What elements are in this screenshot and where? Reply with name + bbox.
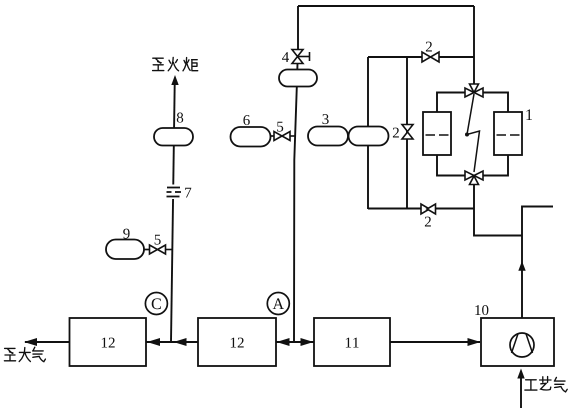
label 7 xyxy=(185,188,191,198)
arrow up on riser xyxy=(518,261,525,271)
wire A-line top xyxy=(297,6,299,50)
wire top header xyxy=(298,5,474,7)
wire drop x368 xyxy=(367,57,369,209)
adsorber tower right xyxy=(494,112,522,155)
process gas feed arrow xyxy=(520,379,522,408)
tower assembly 1 : top connector wires xyxy=(437,93,508,176)
compressor vanes xyxy=(512,334,533,353)
vessel 3 left capsule xyxy=(308,127,348,146)
wire right drop to valve V-top xyxy=(473,6,475,84)
instrument bubble A xyxy=(267,293,289,315)
valve 5 on C-line xyxy=(150,245,173,254)
vessel 8 xyxy=(154,128,193,146)
label 3 xyxy=(323,114,329,124)
wire bottom manifold xyxy=(25,341,480,343)
arrow to atmosphere xyxy=(24,338,37,346)
arrow into box11 xyxy=(301,338,314,346)
box 12 left xyxy=(70,318,147,366)
arrow into box12M xyxy=(277,338,290,346)
vessel 3 right capsule xyxy=(349,127,389,146)
linkage pivot dot xyxy=(465,133,469,137)
three-way valve bottom xyxy=(465,171,483,185)
valve 5 on A-line xyxy=(274,132,296,141)
label 2 middle xyxy=(393,128,399,138)
wire drop x407 xyxy=(406,57,408,209)
valve 4 xyxy=(292,50,310,64)
box 12 middle xyxy=(198,318,276,366)
text 至火炬 (to flare) xyxy=(153,57,198,70)
arrow into box12L xyxy=(147,338,160,346)
label 1 xyxy=(526,109,532,120)
box 10 compressor xyxy=(481,318,554,366)
label 2 top xyxy=(426,42,432,52)
wire bottom-valve discharge xyxy=(474,185,553,319)
text 至大气 (to atmosphere) xyxy=(4,347,45,361)
adsorber tower left xyxy=(423,112,451,155)
wire bottom connector xyxy=(437,155,465,176)
flare arrow xyxy=(171,75,178,85)
wire mid header y57 xyxy=(368,56,474,58)
switching linkage zigzag xyxy=(467,94,480,172)
label 9 xyxy=(123,229,129,239)
valve 2 on regen line xyxy=(421,204,436,214)
wire A-line main xyxy=(294,64,298,343)
valve 2 vertical on x407 xyxy=(402,125,413,140)
label 4 xyxy=(282,52,289,62)
three-way valve top xyxy=(465,84,483,97)
label 2 bottom xyxy=(425,217,431,227)
box 11 xyxy=(314,318,390,366)
label 5 left xyxy=(155,235,161,245)
text 工艺气 (process gas) xyxy=(525,377,567,392)
label 8 xyxy=(177,113,183,123)
vessel 6 xyxy=(231,127,276,147)
arrow into box10 xyxy=(468,338,481,346)
flame arrester 7 xyxy=(163,185,184,200)
label 6 xyxy=(243,115,249,125)
vessel 9 xyxy=(106,240,149,260)
label 10 xyxy=(475,305,488,315)
instrument bubble C xyxy=(145,293,167,315)
label 5 xyxy=(277,122,283,132)
arrow after C junction xyxy=(174,338,187,346)
wire C-line xyxy=(171,84,175,342)
compressor circle xyxy=(510,333,534,357)
valve 2 on mid header xyxy=(422,52,439,62)
wire regen line y209 xyxy=(368,208,474,210)
vessel 4 drum xyxy=(279,70,317,87)
wire compressor riser xyxy=(522,207,553,319)
